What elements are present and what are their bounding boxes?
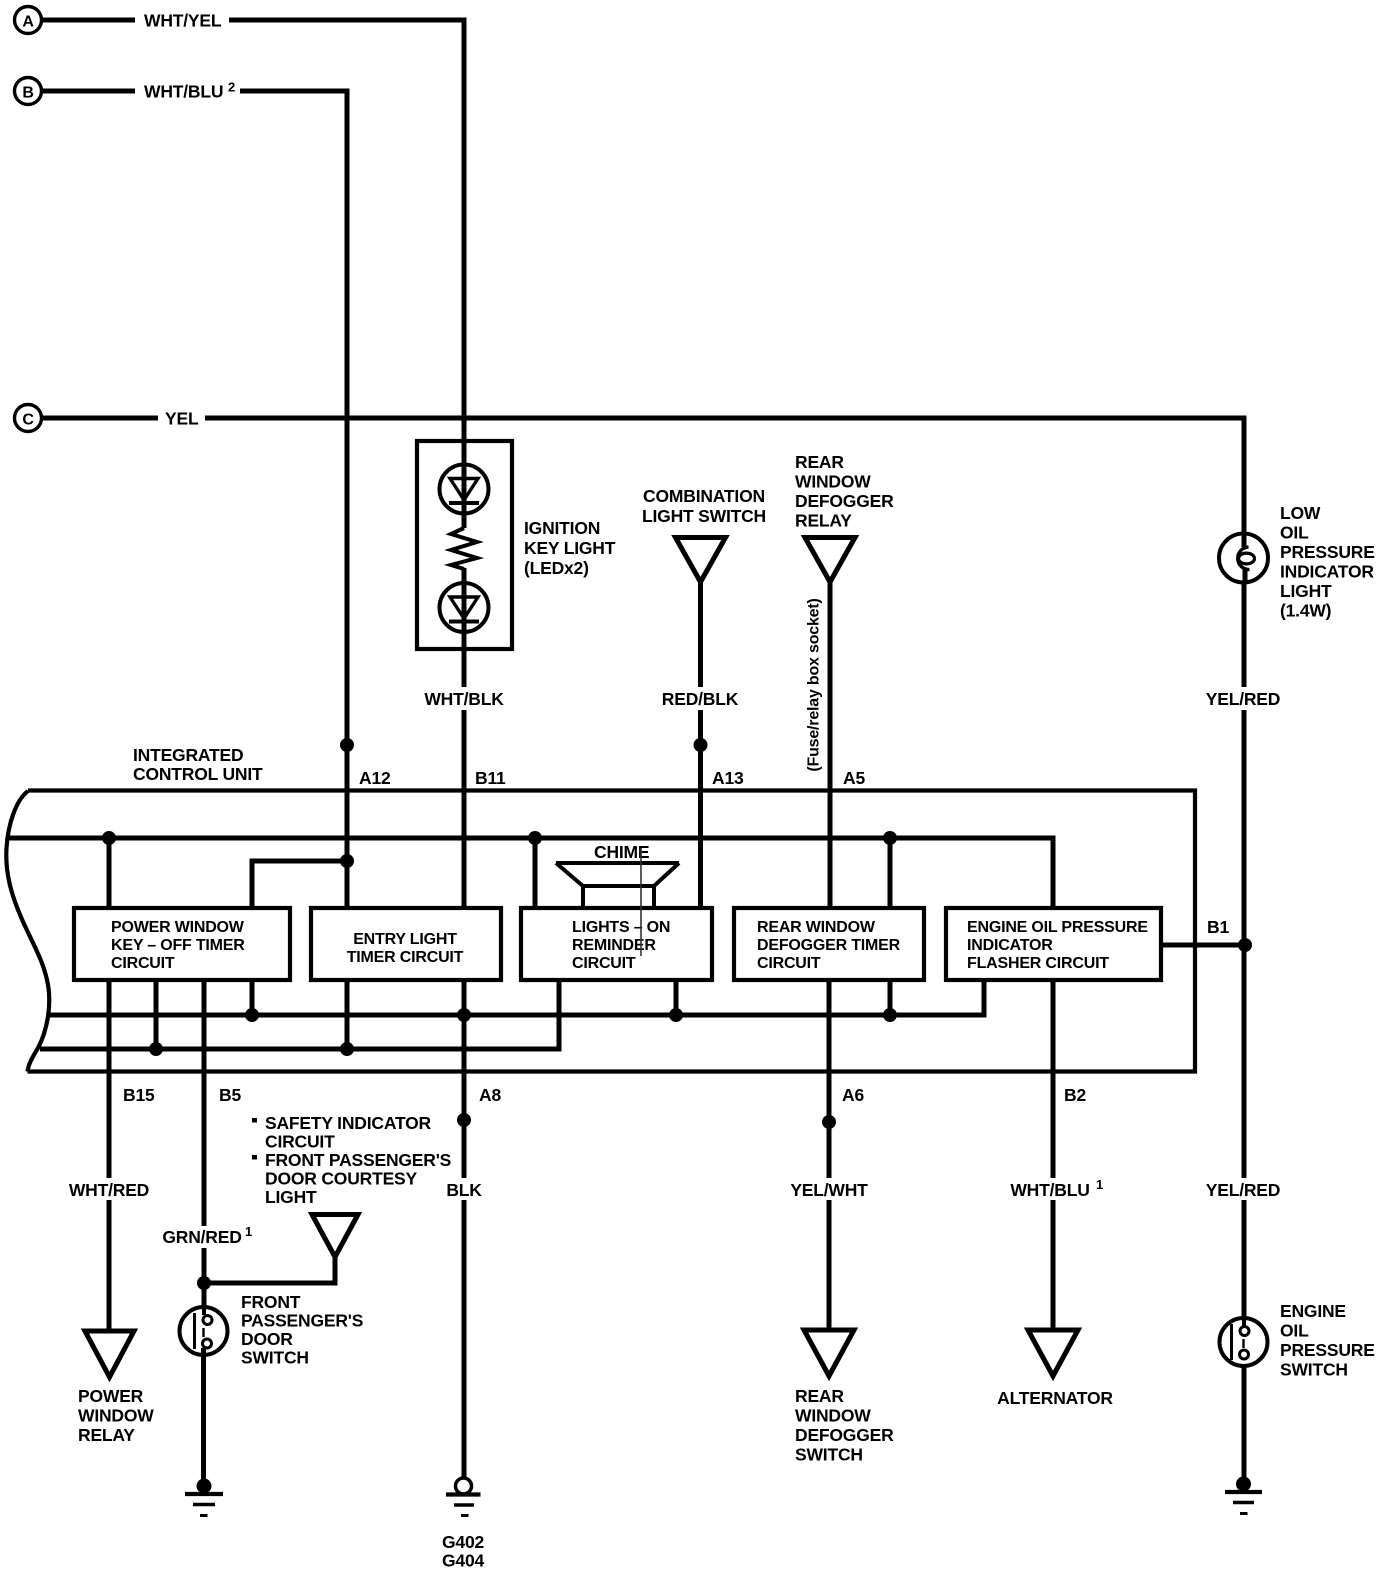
svg-text:DEFOGGER: DEFOGGER: [795, 491, 894, 511]
svg-text:A13: A13: [712, 768, 744, 788]
lights-on reminder circuit box: [521, 848, 712, 980]
svg-text:FRONT: FRONT: [241, 1292, 301, 1312]
svg-text:SWITCH: SWITCH: [1280, 1360, 1348, 1380]
engine oil pressure switch: [1220, 1301, 1375, 1380]
svg-text:B5: B5: [219, 1085, 241, 1105]
wire door switch to ground: [201, 1348, 206, 1479]
junction dot bus x109: [102, 831, 116, 845]
svg-text:ENGINE OIL PRESSURE: ENGINE OIL PRESSURE: [967, 919, 1148, 936]
svg-text:ENTRY LIGHT: ENTRY LIGHT: [353, 931, 457, 948]
junction dot branch x347: [340, 854, 354, 868]
svg-text:LIGHT SWITCH: LIGHT SWITCH: [642, 506, 766, 526]
power window key-off timer circuit box: [74, 908, 290, 980]
svg-text:A8: A8: [479, 1085, 501, 1105]
svg-text:SWITCH: SWITCH: [795, 1445, 863, 1465]
svg-text:WHT/BLU: WHT/BLU: [144, 82, 223, 102]
svg-text:YEL: YEL: [165, 409, 199, 429]
svg-text:A5: A5: [843, 768, 865, 788]
svg-text:IGNITION: IGNITION: [524, 518, 600, 538]
junction dot bus x535: [528, 831, 542, 845]
branch from A12 wire to power window box: [252, 861, 347, 908]
svg-text:POWER: POWER: [78, 1386, 144, 1406]
svg-text:G402: G402: [442, 1532, 484, 1552]
label INTEGRATED CONTROL UNIT: [133, 745, 263, 784]
svg-text:FRONT PASSENGER'S: FRONT PASSENGER'S: [265, 1150, 451, 1170]
svg-text:WHT/YEL: WHT/YEL: [144, 11, 222, 31]
svg-text:WHT/RED: WHT/RED: [69, 1180, 149, 1200]
junction dot GRN/RED: [197, 1276, 211, 1290]
svg-text:RELAY: RELAY: [78, 1425, 135, 1445]
svg-text:COMBINATION: COMBINATION: [643, 486, 765, 506]
svg-text:OIL: OIL: [1280, 1321, 1309, 1341]
svg-text:KEY – OFF TIMER: KEY – OFF TIMER: [111, 937, 245, 954]
internal bus (middle) with rise to engine oil box: [50, 980, 984, 1015]
engine oil pressure indicator flasher circuit box: [946, 908, 1161, 980]
label RED/BLK: [658, 687, 743, 710]
svg-text:LOW: LOW: [1280, 503, 1321, 523]
junction dot lower bus x347: [340, 1042, 354, 1056]
svg-text:LIGHT: LIGHT: [265, 1187, 317, 1207]
rear window defogger relay: [795, 452, 894, 582]
junction dot middle bus x464: [457, 1008, 471, 1022]
svg-text:B15: B15: [123, 1085, 155, 1105]
svg-text:CIRCUIT: CIRCUIT: [572, 955, 636, 972]
stub entry light box to lower bus: [345, 980, 350, 1049]
svg-text:CONTROL UNIT: CONTROL UNIT: [133, 764, 263, 784]
svg-text:PRESSURE: PRESSURE: [1280, 542, 1375, 562]
svg-text:DOOR COURTESY: DOOR COURTESY: [265, 1169, 418, 1189]
wire B5 from power window box to door switch: [202, 980, 207, 1308]
wire RED/BLK from combination light switch to A13: [698, 581, 703, 908]
stub power window box to middle bus: [250, 980, 255, 1015]
ground (engine oil pressure switch): [1225, 1477, 1262, 1514]
svg-text:ENGINE: ENGINE: [1280, 1301, 1346, 1321]
label WHT/RED: [64, 1178, 154, 1200]
ignition key light (LEDx2): [417, 441, 616, 649]
label WHT/BLU 1: [1010, 1177, 1110, 1200]
rear window defogger timer circuit box: [734, 908, 924, 980]
svg-text:WINDOW: WINDOW: [795, 1406, 871, 1426]
stub power window box to lower bus: [154, 980, 159, 1049]
svg-text:FLASHER CIRCUIT: FLASHER CIRCUIT: [967, 955, 1109, 972]
svg-text:C: C: [22, 412, 34, 429]
label REAR WINDOW DEFOGGER SWITCH: [795, 1386, 894, 1465]
svg-text:REMINDER: REMINDER: [572, 937, 656, 954]
svg-text:CIRCUIT: CIRCUIT: [265, 1132, 335, 1152]
svg-text:YEL/RED: YEL/RED: [1206, 1180, 1280, 1200]
svg-text:WHT/BLU: WHT/BLU: [1010, 1180, 1089, 1200]
front passenger's door switch: [180, 1292, 364, 1368]
svg-text:G404: G404: [442, 1551, 484, 1571]
wire WHT/YEL from connector A to B11: [42, 20, 465, 908]
internal bus (upper) with drop to engine oil box: [7, 838, 1053, 908]
svg-text:BLK: BLK: [446, 1180, 482, 1200]
junction dot middle bus x890: [883, 1008, 897, 1022]
svg-text:B: B: [22, 85, 33, 102]
stub bus to lights-on box: [533, 838, 538, 908]
svg-text:CIRCUIT: CIRCUIT: [111, 955, 175, 972]
svg-text:INDICATOR: INDICATOR: [967, 937, 1053, 954]
svg-text:YEL/RED: YEL/RED: [1206, 689, 1280, 709]
junction dot middle bus x676: [669, 1008, 683, 1022]
svg-text:(Fuse/relay box socket): (Fuse/relay box socket): [806, 598, 823, 771]
label YEL/WHT: [786, 1178, 872, 1200]
svg-text:KEY LIGHT: KEY LIGHT: [524, 538, 616, 558]
wire B1 from engine oil box to YEL/RED line: [1161, 943, 1245, 948]
wire B2 from engine oil box to alternator: [1051, 980, 1056, 1330]
junction dot middle bus x252: [245, 1008, 259, 1022]
svg-text:WINDOW: WINDOW: [78, 1406, 154, 1426]
junction dot B1 on YEL/RED line: [1238, 938, 1252, 952]
svg-text:PRESSURE: PRESSURE: [1280, 1340, 1375, 1360]
internal bus (lower) with rise to lights-on box: [40, 980, 559, 1049]
low oil pressure indicator light (1.4W): [1219, 503, 1375, 621]
junction dot below A8: [457, 1113, 471, 1127]
svg-text:OIL: OIL: [1280, 523, 1309, 543]
wire from defogger relay to A5: [828, 581, 833, 908]
wire from oil pressure switch to ground: [1242, 1358, 1247, 1480]
svg-text:DOOR: DOOR: [241, 1329, 293, 1349]
svg-text:(LEDx2): (LEDx2): [524, 558, 589, 578]
connector B: [15, 78, 42, 105]
svg-text:A: A: [22, 14, 34, 31]
connector C: [15, 405, 42, 432]
junction dot below A6: [822, 1115, 836, 1129]
svg-text:A6: A6: [842, 1085, 864, 1105]
label WHT/BLU 2: [144, 80, 235, 102]
svg-text:A12: A12: [359, 768, 391, 788]
svg-text:LIGHT: LIGHT: [1280, 581, 1332, 601]
alternator triangle: [1028, 1330, 1078, 1376]
svg-text:DEFOGGER: DEFOGGER: [795, 1425, 894, 1445]
svg-text:TIMER CIRCUIT: TIMER CIRCUIT: [347, 949, 464, 966]
stub rear defogger timer box to middle bus: [888, 980, 893, 1015]
svg-text:YEL/WHT: YEL/WHT: [790, 1180, 868, 1200]
rear window defogger switch triangle: [804, 1330, 854, 1376]
svg-text:POWER WINDOW: POWER WINDOW: [111, 919, 245, 936]
svg-text:1: 1: [1096, 1177, 1103, 1192]
svg-text:(1.4W): (1.4W): [1280, 601, 1331, 621]
svg-text:SWITCH: SWITCH: [241, 1348, 309, 1368]
wire YEL/RED below bulb down to engine oil pressure switch: [1242, 582, 1247, 1318]
power window relay triangle: [85, 1331, 134, 1377]
label BLK: [442, 1178, 487, 1200]
label GRN/RED 1: [162, 1224, 259, 1248]
svg-text:1: 1: [245, 1224, 252, 1239]
svg-text:PASSENGER'S: PASSENGER'S: [241, 1311, 363, 1331]
svg-text:B1: B1: [1207, 917, 1229, 937]
label YEL/RED lower: [1206, 1178, 1284, 1200]
junction dot A13 above unit: [694, 738, 708, 752]
label YEL/RED upper: [1206, 687, 1284, 710]
svg-text:LIGHTS – ON: LIGHTS – ON: [572, 919, 670, 936]
wire from safety indicator to door switch junction: [204, 1256, 335, 1283]
stub bus to rear window defogger timer box: [888, 838, 893, 908]
junction dot lower bus x156: [149, 1042, 163, 1056]
label WHT/BLK: [420, 687, 509, 710]
svg-text:RED/BLK: RED/BLK: [662, 689, 739, 709]
entry light timer circuit box: [311, 908, 501, 980]
svg-text:CIRCUIT: CIRCUIT: [757, 955, 821, 972]
combination light switch: [642, 486, 766, 582]
ground (door switch): [185, 1479, 223, 1516]
svg-text:2: 2: [228, 80, 235, 95]
svg-text:WHT/BLK: WHT/BLK: [424, 689, 504, 709]
connector A: [15, 7, 42, 34]
svg-text:WINDOW: WINDOW: [795, 472, 871, 492]
ground (entry light A8): [442, 1478, 484, 1571]
svg-text:RELAY: RELAY: [795, 511, 852, 531]
wire A8 from entry light box to ground: [462, 980, 467, 1477]
junction dot A12 above unit: [340, 738, 354, 752]
chime: [556, 842, 679, 908]
safety indicator note text: [252, 1113, 451, 1207]
label POWER WINDOW RELAY: [78, 1386, 154, 1445]
svg-text:REAR: REAR: [795, 452, 844, 472]
svg-text:B2: B2: [1064, 1085, 1086, 1105]
svg-text:DEFOGGER TIMER: DEFOGGER TIMER: [757, 937, 901, 954]
stub bus to power window box: [107, 838, 112, 908]
svg-text:SAFETY INDICATOR: SAFETY INDICATOR: [265, 1113, 432, 1133]
svg-text:INDICATOR: INDICATOR: [1280, 562, 1374, 582]
stub lights-on box to middle bus: [674, 980, 679, 1015]
svg-text:REAR: REAR: [795, 1386, 844, 1406]
svg-text:GRN/RED: GRN/RED: [162, 1227, 241, 1247]
wire YEL from connector C to low oil pressure light: [42, 418, 1245, 534]
wire WHT/BLU from connector B to A12: [42, 91, 348, 908]
wire B15 from power window box to relay: [107, 980, 112, 1331]
junction dot bus x890: [883, 831, 897, 845]
safety indicator triangle: [312, 1215, 358, 1258]
svg-text:INTEGRATED: INTEGRATED: [133, 745, 243, 765]
svg-text:ALTERNATOR: ALTERNATOR: [997, 1388, 1113, 1408]
svg-text:B11: B11: [475, 768, 506, 788]
svg-text:REAR WINDOW: REAR WINDOW: [757, 919, 876, 936]
wire A6 from rear defogger timer box to switch: [827, 980, 832, 1330]
integrated control unit box: [6, 791, 1195, 1072]
